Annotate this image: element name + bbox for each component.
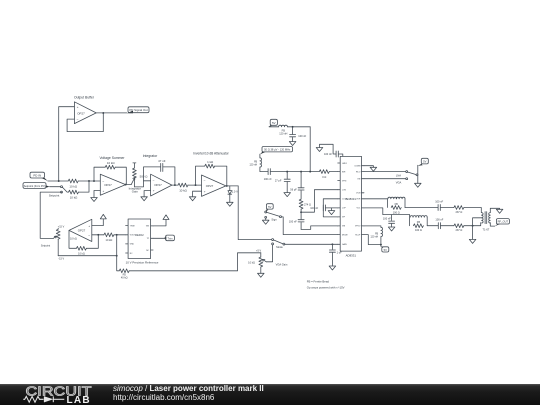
ground U4 [189, 197, 196, 201]
flag +5V supply bias [269, 119, 277, 127]
svg-text:VPSI: VPSI [342, 180, 347, 182]
IC U7 REF02 [126, 219, 159, 264]
svg-text:VCM: VCM [356, 193, 361, 195]
wire U6 plus to +15V arrow [92, 219, 104, 226]
node C12 junction [331, 243, 333, 245]
svg-text:0 Ω: 0 Ω [322, 175, 326, 179]
switch SW2 LNA VGA [396, 171, 418, 185]
switch SW4 mode [272, 239, 285, 249]
svg-text:27 pF: 27 pF [275, 178, 282, 182]
capacitor C6 100nF chain [289, 212, 304, 229]
wire R9 to IC pin2 [329, 171, 337, 173]
wire HILO to switch [364, 171, 406, 173]
flag RF_OUT [495, 219, 510, 227]
wire R10 to transformer primary top [464, 208, 481, 213]
potentiometer R4 integrator gain 500 [129, 163, 149, 194]
svg-text:OP27: OP27 [104, 183, 112, 187]
wire U2 output to pot [126, 184, 132, 186]
wire reference to R12 top [238, 253, 261, 271]
wire switch to setpoint pot wiper [40, 192, 61, 238]
svg-text:−: − [88, 234, 90, 238]
svg-text:Output Buffer: Output Buffer [74, 96, 95, 100]
resistor R3 10k feedback [105, 161, 115, 169]
wire flag to switch [50, 186, 61, 188]
svg-text:OP27: OP27 [206, 184, 214, 188]
svg-text:GND: GND [130, 244, 135, 246]
svg-text:OP27: OP27 [78, 228, 86, 232]
pin stubs U7 left [126, 226, 129, 253]
svg-text:FB = Ferrite Bead: FB = Ferrite Bead [307, 280, 330, 284]
power +15V U6 [100, 214, 106, 219]
svg-text:+: + [103, 189, 105, 193]
svg-text:RCLP: RCLP [355, 234, 361, 236]
node vertical tap junction [116, 234, 118, 236]
svg-text:56 pF: 56 pF [290, 188, 297, 192]
wire pot to integrator input [134, 181, 150, 187]
svg-text:EN: EN [358, 179, 361, 181]
wire U4 feedback right [215, 166, 227, 186]
wire source down [259, 154, 261, 158]
wire SW3 to MODE pin [281, 217, 337, 235]
potentiometer R12 VGA gain [248, 250, 288, 274]
svg-text:MODE: MODE [342, 234, 348, 236]
svg-text:INH: INH [342, 171, 346, 173]
svg-text:274 Ω: 274 Ω [304, 202, 311, 206]
wire R2 to summing node [79, 181, 90, 192]
svg-text:100 nF: 100 nF [310, 206, 318, 210]
wire U6 inverting input row [92, 234, 104, 236]
wire U4 plus to ground [193, 191, 202, 197]
svg-text:GAIN: GAIN [342, 243, 347, 246]
ground C12 [329, 266, 336, 270]
svg-text:PD IN: PD IN [33, 174, 41, 178]
svg-text:FB: FB [417, 220, 421, 224]
wire C10 to R11 [441, 225, 454, 227]
svg-text:VGA: VGA [396, 181, 402, 185]
svg-text:VOUT: VOUT [130, 235, 136, 237]
svg-text:VPSO: VPSO [355, 226, 361, 228]
svg-text:10 kΩ: 10 kΩ [70, 195, 78, 199]
pin stubs U5 left [338, 163, 341, 244]
svg-text:500 Ω: 500 Ω [140, 174, 149, 178]
ground C11 [328, 208, 335, 215]
node U4 output [226, 185, 228, 187]
svg-text:Setpoint (from PC): Setpoint (from PC) [24, 184, 46, 188]
svg-text:FB: FB [395, 202, 399, 206]
svg-text:−: − [204, 179, 206, 183]
capacitor C10 100nF lower [435, 218, 443, 229]
node U4 inverting input [195, 184, 197, 186]
capacitor C12 1uF [329, 244, 342, 266]
ground C7 [316, 148, 323, 152]
svg-text:+5 V: +5 V [256, 250, 261, 253]
wire FB1 to C8 [405, 207, 438, 209]
svg-text:5V: 5V [423, 160, 426, 164]
node feedback junction [93, 180, 95, 182]
svg-text:VGA Gain: VGA Gain [276, 263, 288, 267]
svg-text:10 kΩ: 10 kΩ [78, 252, 85, 256]
wire U1 output [96, 112, 127, 114]
op-amp U4 inverter attenuator [193, 152, 229, 197]
flag +5V L3 [381, 246, 389, 252]
svg-text:LMD1: LMD1 [342, 163, 347, 165]
svg-text:10 kΩ: 10 kΩ [106, 238, 113, 242]
wire VOL to lower path [364, 208, 410, 215]
resistor R11 237 lower [454, 224, 464, 232]
wire 5V rail [269, 126, 279, 128]
resistor R5 [119, 269, 129, 280]
resistor R6 10k [178, 183, 188, 192]
svg-text:NC: NC [130, 253, 133, 255]
resistor R10 237 upper [454, 206, 464, 214]
wire R1 to summing node [78, 180, 100, 182]
wire U4 feedback left [196, 166, 205, 185]
resistor R8 274 vertical [299, 199, 311, 209]
capacitor C8 100nF upper [435, 199, 443, 210]
svg-text:100 nF: 100 nF [289, 219, 297, 223]
wire U1 feedback [67, 113, 103, 132]
node rail j2 [300, 171, 302, 173]
flag trim [164, 235, 175, 241]
svg-text:OP27: OP27 [154, 183, 162, 187]
svg-text:100 nF: 100 nF [435, 218, 443, 222]
svg-text:RF_OUT: RF_OUT [498, 220, 509, 224]
svg-text:120 nH: 120 nH [249, 163, 257, 166]
ferrite bead FB2 with R parallel [410, 215, 428, 233]
wiper arrow setpoint pot [53, 236, 56, 238]
wire VOH to FB network [364, 198, 387, 200]
wiper arrow VGA gain [263, 259, 266, 261]
ground SW3 [262, 218, 269, 224]
svg-text:10 V Precision Reference: 10 V Precision Reference [126, 260, 159, 264]
svg-text:Voltage Summer: Voltage Summer [99, 156, 125, 160]
svg-text:40 kΩ: 40 kΩ [121, 275, 128, 279]
capacitor C3 100nF series [264, 169, 272, 181]
capacitor C5 56pF [290, 172, 304, 200]
resistor R1 10k [68, 179, 78, 188]
wire SW2 common rail [417, 165, 419, 183]
wire R13 to REF02 [114, 234, 126, 236]
node rail j3 [309, 171, 311, 173]
svg-text:VIP: VIP [342, 217, 346, 219]
svg-text:1 kΩ: 1 kΩ [207, 160, 214, 164]
pin stubs U7 right [151, 226, 154, 250]
wire bias to input rail [309, 127, 311, 172]
ground C4 [284, 193, 291, 197]
svg-text:2.0 V: 2.0 V [232, 189, 238, 193]
capacitor C11 100nF mid [310, 205, 337, 211]
inductor L1 ferrite bead [279, 125, 288, 135]
svg-text:VOL: VOL [357, 208, 361, 210]
wiper arrow integrator gain [131, 177, 135, 184]
svg-text:Op amps powered with +/-15V: Op amps powered with +/-15V [307, 285, 345, 289]
svg-text:LNA: LNA [396, 174, 401, 178]
svg-text:100 nF: 100 nF [435, 199, 443, 203]
wire chain bottom to pin8 [301, 226, 338, 230]
wire -15V rail [58, 255, 116, 257]
wire U2 feedback left [94, 167, 105, 181]
wire R14 to inverting node [86, 235, 98, 249]
note text [307, 280, 345, 290]
node center tap crossing [472, 225, 474, 227]
wire U4 output [226, 185, 238, 187]
wire SW4 to GAIN pin [285, 243, 338, 245]
ground C2 [289, 142, 296, 146]
wire PD IN to R1 [48, 180, 68, 182]
ground D1 [227, 202, 234, 206]
wire EN to switch [364, 178, 406, 180]
svg-text:−: − [77, 118, 79, 122]
svg-text:100 nF: 100 nF [383, 217, 391, 221]
wire R5 to VGA pot [129, 270, 237, 272]
wire pin COMM to ground [364, 166, 373, 168]
flag +5V sign [266, 204, 273, 212]
wire R11 to transformer primary bottom [464, 223, 481, 226]
node PD IN junction [58, 180, 60, 182]
node U6 fb junction [97, 234, 99, 236]
wire L1 to bias node [287, 126, 310, 128]
diode D1 2.0V zener clamp [228, 186, 238, 202]
wire T1 secondary bottom to flag [490, 223, 495, 227]
node -15V junction [116, 255, 118, 257]
node rail j1 [286, 171, 288, 173]
svg-text:237 Ω: 237 Ω [455, 228, 462, 232]
pin stubs U5 right [362, 166, 365, 235]
svg-text:5V: 5V [272, 121, 276, 125]
wire vertical tap to R5 [117, 235, 120, 271]
ferrite bead FB1 with R parallel [387, 197, 405, 214]
svg-text:237 Ω: 237 Ω [455, 210, 462, 214]
svg-text:100 Ω: 100 Ω [393, 210, 400, 214]
wire L2 to C3 [260, 167, 268, 172]
ground U5 top right [370, 167, 377, 171]
wire L3 to 5V flag [380, 237, 382, 247]
ground R12 [258, 273, 265, 277]
wire U1 noninverting input [59, 107, 75, 181]
ground T1 secondary [496, 209, 503, 213]
svg-text:COMM: COMM [354, 166, 360, 168]
svg-text:100 Ω: 100 Ω [415, 228, 422, 232]
svg-text:LOP: LOP [342, 208, 347, 210]
resistor R13 10k input [104, 233, 114, 242]
svg-text:NC: NC [146, 250, 149, 252]
wire U7 VIN to +15V arrow [153, 220, 166, 226]
wire R6 to U4 [188, 184, 202, 186]
svg-text:120 nH: 120 nH [279, 132, 287, 136]
wire chain to pin4 [301, 190, 338, 213]
node U1 out junction [102, 112, 104, 114]
ground U2 [91, 198, 98, 202]
svg-text:LON: LON [342, 190, 347, 192]
flag PD Signal Out [127, 107, 149, 114]
pin names U7 [130, 225, 150, 254]
svg-text:Setpoint: Setpoint [49, 194, 60, 198]
svg-text:VOH: VOH [356, 199, 361, 201]
svg-text:AD8331: AD8331 [346, 253, 357, 257]
inductor L3 ferrite bead 5V [370, 227, 382, 238]
node summing junction [88, 180, 90, 182]
op-amp U1 output buffer [74, 96, 96, 124]
wire SW4 lower throw to pot wiper [266, 245, 272, 262]
IC U5 AD8331 [340, 156, 361, 257]
svg-text:100 nF: 100 nF [264, 177, 272, 181]
flag Setpoint (from PC) [23, 183, 50, 189]
svg-text:VIN: VIN [342, 226, 346, 228]
svg-text:5V: 5V [268, 205, 271, 209]
op-amp U2 voltage summer [99, 156, 125, 195]
svg-text:+: + [88, 224, 90, 228]
svg-text:REF02: REF02 [135, 233, 144, 237]
wire C8 to R10 [440, 207, 454, 209]
flag RF source 50ohm 120MHz [260, 147, 293, 155]
node U2 output [125, 184, 127, 186]
switch SW1 Setpoint [49, 186, 69, 198]
svg-text:OP27: OP27 [77, 111, 85, 115]
svg-text:T1-6T: T1-6T [483, 228, 490, 232]
inductor L2 ferrite bead input [249, 158, 261, 167]
resistor R14 10k feedback [76, 246, 86, 255]
ground C9 [388, 227, 395, 231]
ground T1 center tap [469, 239, 476, 243]
transformer T1 [482, 212, 491, 232]
svg-text:10 kΩ: 10 kΩ [107, 161, 115, 165]
svg-text:LAB: LAB [67, 395, 91, 405]
svg-text:10 kΩ: 10 kΩ [70, 237, 77, 241]
svg-text:50 Ω 38 μV - 120 MHz: 50 Ω 38 μV - 120 MHz [264, 148, 291, 152]
capacitor C7 100nF top decouple [320, 144, 343, 157]
capacitor C2 100nF bypass [290, 127, 307, 142]
flag +5V SW2 [418, 158, 429, 166]
wire U3 feedback [144, 167, 175, 185]
pin names U5 right [354, 166, 361, 237]
op-amp U6 setpoint inverter [69, 219, 92, 241]
svg-text:47 nF: 47 nF [158, 159, 166, 163]
wire U6 feedback [69, 230, 76, 248]
ground SW2 [415, 183, 422, 187]
node L3 bottom junction [380, 244, 382, 246]
node U3 output [174, 184, 176, 186]
svg-text:+: + [77, 105, 79, 109]
op-amp U3 integrator [143, 154, 172, 196]
resistor R2 10k [69, 190, 79, 199]
svg-text:100 nF: 100 nF [298, 134, 306, 138]
wire FB2 to C10 [427, 225, 438, 227]
wire U2 feedback right [115, 167, 126, 184]
svg-text:5V: 5V [384, 248, 387, 252]
wire input rail [270, 171, 319, 173]
wire COM1 decouple loop [323, 199, 337, 217]
svg-text:−: − [153, 179, 155, 183]
svg-text:Sign: Sign [271, 218, 277, 222]
svg-text:-15 V: -15 V [58, 258, 64, 261]
svg-text:+: + [153, 189, 155, 193]
svg-text:Gain: Gain [132, 190, 138, 194]
svg-text:Inverter/10 dB Attenuator: Inverter/10 dB Attenuator [193, 152, 229, 156]
pin names U5 left [342, 163, 348, 246]
potentiometer R15 setpoint [41, 226, 77, 256]
svg-text:Setpoint: Setpoint [41, 244, 51, 248]
flag PD IN [30, 172, 48, 181]
capacitor C1 47nF feedback [158, 159, 166, 172]
svg-text:10 kΩ: 10 kΩ [248, 260, 255, 264]
wire U7 TP to trim flag [153, 237, 164, 239]
svg-text:TP: TP [147, 238, 150, 240]
svg-text:TRIM: TRIM [130, 225, 135, 227]
wire attenuator output down to mode switch [238, 186, 272, 240]
wire T1 center tap to ground [473, 218, 482, 240]
wire VPSO to ferrite [364, 226, 381, 227]
svg-text:−: − [102, 179, 104, 183]
wire U2 plus input to ground [94, 191, 100, 198]
node chain junction [300, 211, 302, 213]
svg-text:COM1: COM1 [342, 199, 347, 201]
resistor R9 0 ohm [319, 170, 329, 179]
svg-text:120 nH: 120 nH [370, 235, 378, 238]
wire U3 out to R6 [172, 184, 178, 186]
capacitor C4 27pF shunt [275, 172, 290, 193]
svg-text:HILO: HILO [356, 171, 361, 173]
svg-text:10 kΩ: 10 kΩ [69, 184, 77, 188]
svg-text:100 nF: 100 nF [324, 152, 332, 156]
power +15V U7 [163, 215, 169, 220]
svg-text:VIN: VIN [146, 226, 150, 228]
wire U3 plus to ground [144, 191, 151, 197]
node bias junction [292, 126, 294, 128]
svg-text:+: + [204, 190, 206, 194]
svg-text:PD Signal Out: PD Signal Out [129, 108, 148, 112]
capacitor C9 100nF shunt lower [383, 215, 395, 227]
svg-text:1 uF: 1 uF [337, 251, 343, 255]
wire T1 secondary top to ground [490, 208, 499, 212]
svg-text:Trim: Trim [168, 236, 173, 240]
svg-text:+15 V: +15 V [58, 226, 65, 229]
svg-text:Integrator: Integrator [143, 154, 158, 158]
ground U3 [141, 197, 148, 201]
svg-text:10 kΩ: 10 kΩ [179, 188, 187, 192]
svg-text:Mode: Mode [276, 245, 283, 249]
resistor R7 1k feedback [205, 160, 215, 168]
switch SW3 sign [265, 211, 282, 222]
wire RCLP jog [364, 235, 381, 245]
